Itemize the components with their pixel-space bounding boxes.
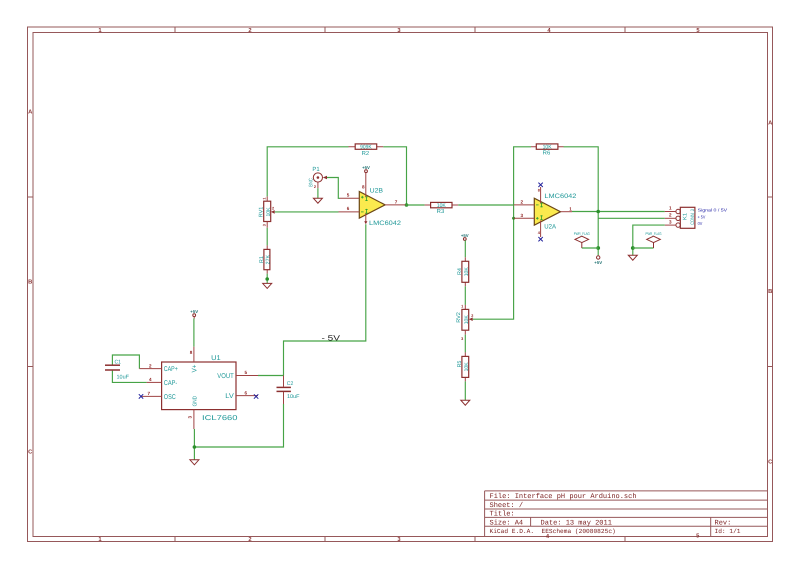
pin 8 V+ — [190, 347, 199, 373]
svg-text:10K: 10K — [266, 207, 272, 216]
power +5V above U1 — [190, 309, 198, 319]
wire +5V branch to K1 pin2 — [598, 217, 665, 219]
U2B pin 6 — [339, 206, 360, 212]
U2B pin 8 V+ — [362, 173, 366, 197]
svg-text:2: 2 — [149, 363, 152, 368]
svg-text:27K: 27K — [265, 254, 271, 264]
svg-text:10K: 10K — [464, 315, 470, 324]
wire R1 to ground — [266, 274, 268, 284]
wire U2B pin4 -5V rail to C2 top — [284, 224, 366, 375]
svg-text:CAP-: CAP- — [164, 380, 178, 387]
U2A pin 2 — [514, 200, 535, 205]
wire U2B output to R3 — [406, 204, 425, 206]
title block — [485, 491, 768, 537]
U2A pin 4 no connect — [538, 221, 543, 242]
svg-text:2: 2 — [248, 27, 251, 34]
capacitor C2 — [277, 376, 301, 405]
wire P1 to U2B pin5 — [327, 178, 340, 199]
pwr flag PWR_FLAG on 0V — [646, 231, 662, 248]
svg-text:CONN_3: CONN_3 — [690, 209, 696, 225]
svg-text:File: Interface pH pour Arduin: File: Interface pH pour Arduino.sch — [490, 492, 637, 501]
ground RV2 chain — [461, 400, 470, 405]
svg-text:B: B — [768, 289, 772, 295]
svg-text:Signal 0 / 5V: Signal 0 / 5V — [698, 208, 728, 213]
wire U2A output to K1 pin1 — [572, 211, 665, 213]
svg-text:C1: C1 — [115, 359, 122, 365]
svg-text:K1: K1 — [683, 213, 689, 220]
wire RV1 wiper to U2B pin6 — [275, 211, 339, 213]
svg-text:+5V: +5V — [190, 309, 198, 314]
svg-text:3: 3 — [521, 213, 524, 218]
svg-text:10K: 10K — [464, 267, 470, 276]
svg-text:1: 1 — [461, 304, 463, 308]
U2B pin 7 output — [385, 200, 405, 205]
svg-text:8: 8 — [190, 350, 193, 355]
svg-text:3: 3 — [188, 416, 193, 419]
IC U1 ICL7660 — [162, 355, 238, 422]
svg-text:2: 2 — [471, 314, 473, 318]
wire R6 loop: RV2 wiper up to R6 left — [473, 147, 531, 319]
svg-text:KiCad E.D.A. EESchema (200808: KiCad E.D.A. EESchema (20080825c) — [490, 528, 616, 535]
svg-text:6: 6 — [245, 390, 248, 395]
svg-text:U2A: U2A — [544, 223, 556, 230]
resistor R5 — [457, 352, 470, 381]
wire P1 pin2 to ground — [317, 188, 319, 198]
svg-text:7: 7 — [395, 200, 398, 205]
wire U1 VOUT to C2 — [258, 375, 284, 377]
svg-text:Id: 1/1: Id: 1/1 — [715, 528, 741, 535]
pin 5 VOUT — [217, 370, 258, 380]
U2B pin 4 V- — [364, 214, 367, 225]
svg-text:LMC6042: LMC6042 — [369, 220, 402, 227]
svg-text:P1: P1 — [312, 166, 320, 173]
svg-text:909K: 909K — [360, 145, 372, 151]
svg-text:R3: R3 — [437, 208, 445, 215]
ground U1 — [190, 460, 199, 465]
junction R2/output rail — [405, 203, 409, 207]
svg-text:PWR_FLAG: PWR_FLAG — [646, 231, 662, 236]
junction output/+5V vertical — [596, 210, 600, 214]
svg-text:ICL7660: ICL7660 — [202, 415, 238, 422]
svg-text:U2B: U2B — [370, 188, 383, 195]
svg-text:B: B — [28, 280, 32, 286]
svg-text:2: 2 — [314, 185, 316, 189]
svg-text:2: 2 — [248, 536, 251, 543]
svg-text:6: 6 — [347, 206, 350, 211]
svg-text:+5V: +5V — [461, 233, 469, 238]
power +5V above R4 — [461, 233, 469, 241]
svg-text:R1: R1 — [259, 256, 265, 263]
pin 2 CAP+ — [139, 363, 177, 373]
junction gnd pwr flag — [631, 246, 635, 250]
resistor R3 — [425, 202, 459, 215]
U2A pin 8 no connect — [538, 183, 543, 204]
pwr flag PWR_FLAG on +5V — [574, 231, 590, 248]
wire RV2 to R5 — [464, 335, 466, 353]
svg-text:5: 5 — [347, 192, 350, 197]
wire C1 top jog to CAP+ — [112, 355, 139, 369]
pin 6 LV — [225, 390, 258, 400]
svg-text:Title:: Title: — [490, 510, 515, 519]
capacitor C1 — [105, 359, 130, 380]
op-amp U2B — [359, 188, 401, 227]
K1 pin 3 — [665, 219, 676, 225]
svg-text:10uF: 10uF — [287, 394, 300, 400]
svg-text:- 5V: - 5V — [322, 333, 342, 342]
wire C2 bottom to GND junction — [194, 404, 283, 447]
svg-text:2: 2 — [521, 200, 524, 205]
power +5V above U2B — [362, 165, 370, 173]
svg-text:+ 5V: + 5V — [698, 215, 706, 220]
U2B pin 5 — [340, 192, 359, 198]
wire pwr flag 1 — [582, 247, 598, 249]
pin 4 CAP- — [147, 377, 178, 387]
K1 pin 1 — [665, 206, 676, 212]
resistor R6 — [531, 144, 564, 157]
svg-text:RV1: RV1 — [259, 207, 265, 218]
svg-text:+5V: +5V — [594, 260, 602, 265]
svg-text:Rev:: Rev: — [715, 519, 732, 527]
wire K1 pin3 to ground — [633, 225, 665, 255]
svg-text:2: 2 — [669, 212, 672, 217]
junction U1 GND — [193, 445, 197, 449]
wire RV1 pin1 to R2 left — [267, 147, 348, 197]
junction +5V pwr flag — [596, 246, 600, 250]
wire U1 V+ to +5V — [193, 319, 195, 347]
svg-text:1: 1 — [569, 206, 572, 211]
junction U2A pin3 — [512, 217, 515, 220]
pin 7 OSC — [139, 391, 176, 401]
svg-text:8: 8 — [538, 188, 540, 192]
wire U1 GND pin to ground — [193, 429, 195, 460]
wire R3 to U2A pin2 — [458, 204, 514, 206]
svg-text:4: 4 — [149, 377, 152, 382]
wire R2 right down to output rail — [383, 147, 406, 205]
connector P1 BNC — [309, 166, 328, 189]
wire R5 to ground — [464, 381, 466, 400]
svg-text:PWR_FLAG: PWR_FLAG — [574, 231, 590, 236]
svg-text:10uF: 10uF — [117, 375, 130, 381]
potentiometer RV2 — [456, 304, 473, 341]
svg-text:2: 2 — [272, 207, 274, 211]
wire RV1 pin3 to R1 — [266, 228, 268, 246]
svg-text:Date: 13 may 2011: Date: 13 may 2011 — [541, 519, 612, 527]
svg-text:GND: GND — [192, 396, 198, 407]
svg-text:R4: R4 — [457, 268, 463, 275]
svg-text:0V: 0V — [698, 221, 703, 226]
svg-text:3: 3 — [461, 337, 463, 341]
svg-text:7: 7 — [148, 391, 151, 396]
pin 3 GND — [188, 396, 199, 429]
svg-text:10K: 10K — [464, 362, 470, 371]
potentiometer RV1 — [259, 196, 275, 227]
svg-text:1: 1 — [669, 206, 672, 211]
power +5V inverted below rail — [594, 256, 602, 265]
svg-text:U1: U1 — [211, 355, 221, 362]
wire R6 right down to +5V rail — [564, 147, 599, 256]
svg-text:C2: C2 — [287, 381, 294, 387]
wire pwr flag 2 — [633, 247, 654, 249]
svg-text:1: 1 — [262, 198, 266, 200]
ground R1 — [263, 283, 272, 288]
wire +5V to R4 — [464, 240, 466, 257]
svg-text:LMC6042: LMC6042 — [544, 193, 577, 200]
op-amp U2A — [534, 193, 577, 230]
svg-text:RV2: RV2 — [456, 312, 462, 323]
svg-text:CAP+: CAP+ — [164, 366, 178, 373]
svg-text:LV: LV — [225, 393, 234, 400]
wire C1 bottom to CAP- — [112, 371, 146, 383]
svg-text:3: 3 — [669, 219, 672, 224]
svg-text:VOUT: VOUT — [217, 373, 234, 380]
wire R4 to RV2 — [464, 286, 466, 305]
svg-text:5: 5 — [245, 370, 248, 375]
svg-text:Sheet: /: Sheet: / — [490, 501, 524, 510]
resistor R2 — [349, 144, 384, 157]
U2A pin 1 output — [561, 206, 573, 211]
svg-text:R5: R5 — [457, 361, 463, 368]
ground right — [628, 255, 637, 260]
resistor R1 — [259, 245, 272, 273]
connector K1 CONN_3 — [676, 207, 696, 228]
svg-text:3: 3 — [262, 224, 266, 226]
ground P1 — [313, 198, 322, 203]
junction R1 ground — [265, 277, 269, 281]
svg-text:OSC: OSC — [164, 394, 176, 401]
svg-text:8: 8 — [362, 184, 365, 189]
K1 pin 2 — [665, 212, 676, 218]
resistor R4 — [457, 257, 470, 286]
svg-text:Size: A4: Size: A4 — [490, 518, 524, 527]
U2A pin 3 — [514, 213, 535, 218]
svg-text:R2: R2 — [362, 150, 370, 157]
svg-text:R6: R6 — [543, 150, 551, 157]
svg-text:+5V: +5V — [362, 165, 370, 170]
svg-text:V+: V+ — [192, 365, 199, 373]
